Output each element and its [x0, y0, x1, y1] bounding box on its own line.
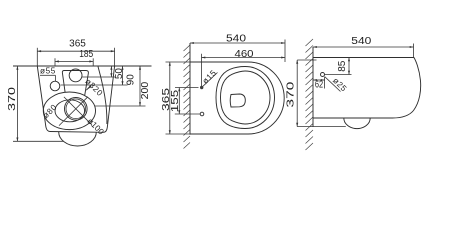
floor line [297, 126, 346, 128]
dim 365 [37, 50, 114, 52]
rim inner [221, 71, 271, 124]
dim 62 [324, 77, 326, 89]
svg-text:90: 90 [125, 74, 136, 86]
body right edge [104, 66, 115, 132]
svg-text:540: 540 [226, 33, 247, 44]
wall face [312, 47, 314, 127]
dim 90 [122, 66, 124, 85]
label ø25 with leader [325, 77, 341, 92]
trapway bump [59, 132, 97, 146]
fixing hole dot ø15 [200, 86, 203, 89]
dim 365 middle [169, 62, 171, 134]
bowl footprint capsule [190, 62, 284, 134]
dim 185 [55, 60, 93, 62]
dim 200 [139, 66, 141, 106]
dim 370 (side view height) [296, 60, 298, 127]
dim 370 left [16, 66, 18, 141]
body top edge with extensions [13, 65, 152, 67]
label ø320 with leader [86, 86, 91, 91]
svg-text:460: 460 [235, 49, 254, 60]
svg-text:ø55: ø55 [40, 67, 56, 76]
valve cross line NE-SW [59, 97, 88, 126]
cistern circle [69, 69, 82, 82]
rim outer [216, 67, 275, 129]
body left edge [37, 66, 50, 132]
water surface D [230, 94, 245, 107]
svg-text:200: 200 [140, 81, 151, 99]
svg-text:365: 365 [69, 39, 86, 50]
wall face [189, 43, 191, 135]
svg-text:85: 85 [337, 60, 348, 72]
cistern cutout [62, 71, 88, 96]
inlet hole dot [321, 73, 325, 77]
dim 85 [348, 58, 350, 75]
body bottom edge [50, 131, 104, 134]
wall hatching [184, 45, 191, 149]
side profile [313, 58, 421, 119]
dim 155 [178, 88, 180, 115]
dim 460 [202, 57, 286, 59]
flush inner ellipse [55, 100, 85, 122]
dim 50 [110, 66, 112, 77]
svg-text:365: 365 [161, 87, 172, 111]
svg-text:185: 185 [79, 49, 93, 60]
hole circle ø55 [50, 81, 60, 91]
inner shoulder curve [98, 67, 107, 125]
svg-text:370: 370 [7, 86, 18, 111]
flush outer ellipse [43, 92, 95, 130]
dim 540 middle [190, 42, 285, 44]
svg-text:50: 50 [114, 68, 125, 80]
valve circle ø80 [65, 98, 88, 121]
dim 540 right [313, 46, 414, 48]
supply circle [200, 112, 204, 116]
trapway bump side [344, 118, 370, 129]
svg-text:370: 370 [285, 81, 296, 108]
svg-text:540: 540 [351, 36, 372, 47]
svg-text:62: 62 [315, 80, 324, 91]
valve cross line NW-SE [64, 97, 92, 125]
wall hatching [306, 39, 314, 150]
